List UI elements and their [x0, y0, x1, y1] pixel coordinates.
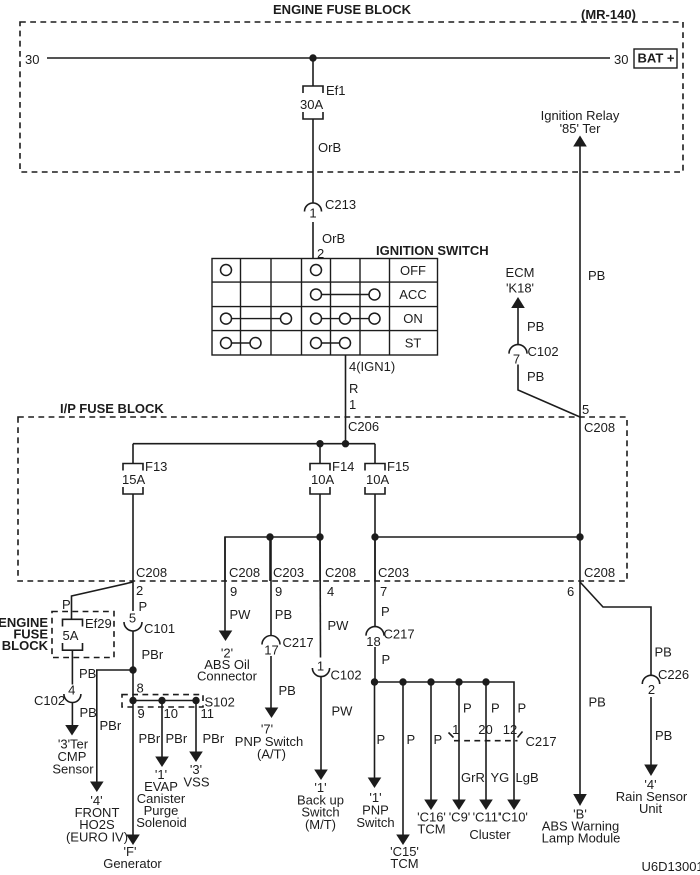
- wire PB to C102: [517, 308, 519, 345]
- wire: [319, 444, 321, 464]
- svg-text:ACC: ACC: [399, 287, 426, 302]
- svg-text:10A: 10A: [311, 472, 334, 487]
- wire P to engine fuse block: [72, 582, 134, 619]
- svg-text:(MR-140): (MR-140): [581, 7, 636, 22]
- wire F14 down: [319, 494, 321, 581]
- svg-text:PW: PW: [328, 618, 350, 633]
- svg-text:PW: PW: [230, 607, 252, 622]
- svg-text:C213: C213: [325, 197, 356, 212]
- svg-text:C208: C208: [325, 565, 356, 580]
- wire PBr pin 11 to VSS: [195, 701, 197, 753]
- svg-text:C203: C203: [378, 565, 409, 580]
- svg-text:7: 7: [380, 584, 387, 599]
- svg-text:PW: PW: [332, 704, 354, 719]
- svg-text:5A: 5A: [63, 628, 79, 643]
- wire F15 to relay bus: [375, 536, 580, 538]
- ignition switch frame: [212, 259, 438, 356]
- wire PBr pin 9 to generator: [132, 701, 134, 836]
- junction dot: [129, 697, 136, 704]
- svg-text:Ef1: Ef1: [326, 83, 346, 98]
- connector C217 pin 17: [262, 636, 280, 645]
- svg-text:C101: C101: [144, 621, 175, 636]
- arrow to ABS warning lamp module: [573, 794, 587, 806]
- svg-text:Cluster: Cluster: [469, 827, 511, 842]
- svg-text:2: 2: [648, 682, 655, 697]
- svg-text:1: 1: [317, 659, 324, 674]
- connector C213 pin 1: [305, 203, 322, 212]
- arrow to CMP sensor: [65, 725, 79, 736]
- svg-text:30: 30: [25, 52, 39, 67]
- svg-text:Generator: Generator: [103, 856, 162, 871]
- junction dot: [316, 533, 323, 540]
- svg-text:ECM: ECM: [506, 265, 535, 280]
- fuse F15 10A: [365, 464, 385, 495]
- junction dot at fuse Ef1 tap: [309, 54, 316, 61]
- svg-text:PBr: PBr: [100, 718, 122, 733]
- svg-text:C208: C208: [584, 420, 615, 435]
- svg-text:18: 18: [366, 634, 380, 649]
- wire F13 to C208 pin 2: [132, 494, 134, 581]
- svg-text:P: P: [139, 599, 148, 614]
- I/P fuse block dashed box: [18, 417, 627, 581]
- svg-text:P: P: [434, 732, 443, 747]
- wire P GrR to C9 cluster: [458, 682, 460, 800]
- wire PB to C217: [270, 537, 272, 636]
- svg-text:C208: C208: [136, 565, 167, 580]
- svg-text:P: P: [518, 701, 527, 716]
- svg-text:(A/T): (A/T): [257, 747, 286, 762]
- arrow to C9 cluster: [452, 800, 466, 811]
- svg-text:P: P: [382, 652, 391, 667]
- wire P to PNP switch: [374, 682, 376, 778]
- svg-text:F13: F13: [145, 459, 167, 474]
- wire P to C15 TCM: [402, 682, 404, 835]
- svg-text:C208: C208: [584, 565, 615, 580]
- svg-text:'C9': 'C9': [449, 810, 471, 825]
- junction dot F14 tap: [316, 440, 323, 447]
- svg-text:7: 7: [513, 352, 520, 367]
- svg-text:10: 10: [164, 706, 178, 721]
- wire P to C217: [374, 537, 376, 627]
- switch row ON contacts: [232, 318, 281, 320]
- svg-text:11: 11: [201, 706, 215, 721]
- svg-text:VSS: VSS: [183, 775, 209, 790]
- svg-text:Solenoid: Solenoid: [136, 815, 187, 830]
- fuse Ef1 30A: [303, 86, 323, 119]
- fuse F13 15A: [123, 464, 143, 495]
- svg-text:4: 4: [327, 584, 334, 599]
- svg-text:4: 4: [68, 683, 75, 698]
- wire OrB pin 2: [312, 222, 314, 258]
- wire 4(IGN1) R: [345, 355, 347, 417]
- fuse Ef29 5A: [63, 619, 83, 650]
- wire C203 pin 9 drop: [269, 537, 271, 581]
- svg-text:PBr: PBr: [139, 731, 161, 746]
- connector C102 pin 1: [312, 668, 329, 677]
- svg-text:R: R: [349, 381, 358, 396]
- svg-text:PB: PB: [279, 683, 296, 698]
- wire P to C101: [132, 581, 134, 611]
- svg-text:YG: YG: [491, 770, 510, 785]
- junction dot: [158, 697, 165, 704]
- svg-text:PB: PB: [655, 728, 672, 743]
- svg-text:15A: 15A: [122, 472, 145, 487]
- svg-text:C203: C203: [273, 565, 304, 580]
- arrow up to ECM: [511, 297, 525, 308]
- connector C217 pin 18: [366, 627, 384, 636]
- svg-text:C102: C102: [331, 668, 362, 683]
- wire PBr from C101: [132, 631, 134, 701]
- fuse F14 10A: [310, 464, 330, 495]
- arrow to C10 cluster: [507, 800, 521, 811]
- junction dot: [371, 678, 378, 685]
- svg-text:PB: PB: [79, 666, 96, 681]
- svg-text:5: 5: [129, 611, 136, 626]
- svg-text:ON: ON: [403, 311, 423, 326]
- svg-text:9: 9: [275, 584, 282, 599]
- svg-text:GrR: GrR: [461, 770, 485, 785]
- wire fuse feed bus: [133, 443, 375, 445]
- svg-text:OrB: OrB: [318, 140, 341, 155]
- svg-text:10A: 10A: [366, 472, 389, 487]
- svg-text:C217: C217: [526, 734, 557, 749]
- svg-text:Switch: Switch: [356, 815, 394, 830]
- engine fuse block dashed box: [52, 612, 114, 658]
- svg-text:OFF: OFF: [400, 263, 426, 278]
- svg-text:P: P: [381, 604, 390, 619]
- svg-text:C217: C217: [384, 627, 415, 642]
- svg-text:BAT +: BAT +: [638, 51, 675, 66]
- wire PB from C102 to C208 pin 5: [518, 365, 580, 418]
- connector C226 pin 2: [642, 675, 659, 684]
- svg-text:9: 9: [230, 584, 237, 599]
- switch row OFF contacts: [221, 265, 232, 276]
- arrow to generator: [126, 835, 140, 846]
- svg-text:PB: PB: [589, 695, 606, 710]
- wire PB to C226: [580, 582, 651, 676]
- svg-text:1: 1: [349, 397, 356, 412]
- svg-text:C208: C208: [229, 565, 260, 580]
- svg-text:P: P: [62, 597, 71, 612]
- arrow to back up switch: [314, 770, 328, 781]
- wire P to C16 TCM: [430, 682, 432, 800]
- BAT+ terminal: [634, 49, 677, 68]
- arrow up to ignition relay: [573, 136, 587, 147]
- wire OrB: [312, 119, 314, 203]
- svg-text:2: 2: [136, 583, 143, 598]
- arrow to VSS: [189, 752, 203, 763]
- wire P from C217 to bus: [374, 647, 376, 682]
- wire PBr to HO2S: [97, 670, 133, 782]
- svg-text:C217: C217: [283, 635, 314, 650]
- connector C102 pin 7: [509, 345, 527, 354]
- arrow to C11 cluster: [479, 800, 493, 811]
- arrow to PNP switch AT: [265, 708, 279, 719]
- svg-text:4(IGN1): 4(IGN1): [349, 359, 395, 374]
- wire PBr pin 10 to EVAP: [161, 701, 163, 758]
- switch row ACC contacts: [322, 294, 370, 296]
- splice S102 dashed box: [122, 695, 203, 707]
- svg-text:Sensor: Sensor: [52, 762, 94, 777]
- wire PB to CMP sensor: [71, 703, 73, 726]
- svg-text:TCM: TCM: [417, 822, 445, 837]
- svg-text:1: 1: [452, 722, 459, 737]
- wire PB to ABS warning lamp module: [579, 581, 581, 795]
- wire F15 down: [374, 494, 376, 581]
- switch row ST contacts: [232, 342, 251, 344]
- svg-text:6: 6: [567, 584, 574, 599]
- wire cluster feed bus: [375, 682, 515, 800]
- wire F14 branch bus: [225, 537, 320, 581]
- svg-text:P: P: [407, 732, 416, 747]
- svg-text:5: 5: [582, 402, 589, 417]
- wire 30 bus: [47, 57, 610, 59]
- wire: [132, 444, 134, 464]
- arrow to C16 TCM: [424, 800, 438, 811]
- connector C101 pin 5: [124, 622, 142, 631]
- svg-text:P: P: [491, 701, 500, 716]
- svg-text:PB: PB: [655, 645, 672, 660]
- wire PB to PNP switch AT: [270, 656, 272, 708]
- wire splice bus: [133, 700, 196, 702]
- svg-text:30: 30: [614, 52, 628, 67]
- wire PW to ABS oil connector: [224, 537, 226, 631]
- svg-text:'85' Ter: '85' Ter: [560, 121, 602, 136]
- svg-text:C206: C206: [348, 419, 379, 434]
- svg-text:17: 17: [264, 643, 278, 658]
- svg-text:(M/T): (M/T): [305, 817, 336, 832]
- svg-text:PB: PB: [527, 369, 544, 384]
- svg-text:C226: C226: [658, 667, 689, 682]
- junction dot: [266, 533, 273, 540]
- wire PW to back up switch: [320, 677, 322, 770]
- svg-text:Unit: Unit: [639, 801, 663, 816]
- junction dot C206 tap: [342, 440, 349, 447]
- svg-text:12: 12: [503, 722, 517, 737]
- svg-text:C102: C102: [528, 344, 559, 359]
- svg-text:Connector: Connector: [197, 669, 258, 684]
- svg-text:20: 20: [478, 722, 492, 737]
- svg-text:ENGINE FUSE BLOCK: ENGINE FUSE BLOCK: [273, 2, 412, 17]
- svg-text:TCM: TCM: [390, 856, 418, 871]
- arrow to PNP switch: [368, 778, 382, 789]
- svg-text:PB: PB: [527, 319, 544, 334]
- svg-text:PBr: PBr: [203, 731, 225, 746]
- connector C217 cluster dashed: [454, 740, 518, 742]
- arrow to C15 TCM: [396, 835, 410, 846]
- svg-text:PB: PB: [588, 268, 605, 283]
- junction dot: [399, 678, 406, 685]
- svg-text:'C11': 'C11': [473, 810, 501, 825]
- wire PB from Ef29: [71, 650, 73, 684]
- svg-text:PB: PB: [275, 607, 292, 622]
- svg-text:(EURO IV): (EURO IV): [66, 830, 128, 845]
- svg-text:BLOCK: BLOCK: [2, 638, 49, 653]
- wire: [312, 58, 314, 86]
- svg-text:1: 1: [309, 206, 316, 221]
- wire P YG to C11 cluster: [485, 682, 487, 800]
- svg-text:ST: ST: [405, 336, 422, 351]
- junction dot: [455, 678, 462, 685]
- junction dot: [192, 697, 199, 704]
- junction dot: [427, 678, 434, 685]
- svg-text:P: P: [377, 732, 386, 747]
- wire from C206 to bus: [345, 417, 347, 444]
- wire PB ignition relay: [579, 146, 581, 581]
- junction dot HO2S tap: [129, 666, 136, 673]
- svg-text:U6D13001: U6D13001: [642, 859, 700, 874]
- svg-text:8: 8: [137, 681, 144, 696]
- svg-text:PBr: PBr: [142, 647, 164, 662]
- connector C102 pin 4: [64, 694, 81, 703]
- junction dot: [482, 678, 489, 685]
- junction dot: [576, 533, 583, 540]
- arrow to front HO2S: [90, 782, 104, 793]
- arrow to EVAP solenoid: [155, 757, 169, 768]
- svg-text:P: P: [463, 701, 472, 716]
- svg-text:OrB: OrB: [322, 231, 345, 246]
- svg-text:Lamp Module: Lamp Module: [542, 831, 621, 846]
- engine fuse block dashed box: [20, 22, 683, 172]
- svg-text:PB: PB: [80, 705, 97, 720]
- svg-text:IGNITION SWITCH: IGNITION SWITCH: [376, 243, 489, 258]
- svg-text:'K18': 'K18': [506, 281, 534, 296]
- wire PW to C102: [319, 537, 322, 658]
- svg-text:I/P FUSE BLOCK: I/P FUSE BLOCK: [60, 401, 164, 416]
- arrow to ABS oil connector: [219, 631, 233, 642]
- svg-text:30A: 30A: [300, 97, 323, 112]
- svg-text:C102: C102: [34, 693, 65, 708]
- svg-text:PBr: PBr: [166, 731, 188, 746]
- svg-text:LgB: LgB: [516, 770, 539, 785]
- svg-text:F15: F15: [387, 459, 409, 474]
- arrow to rain sensor unit: [644, 765, 658, 777]
- svg-text:9: 9: [138, 706, 145, 721]
- svg-text:F14: F14: [332, 459, 354, 474]
- svg-text:'C10': 'C10': [499, 810, 528, 825]
- wire: [374, 444, 376, 464]
- svg-text:Ef29: Ef29: [85, 616, 112, 631]
- wire PB to rain sensor unit: [650, 697, 652, 765]
- junction dot: [371, 533, 378, 540]
